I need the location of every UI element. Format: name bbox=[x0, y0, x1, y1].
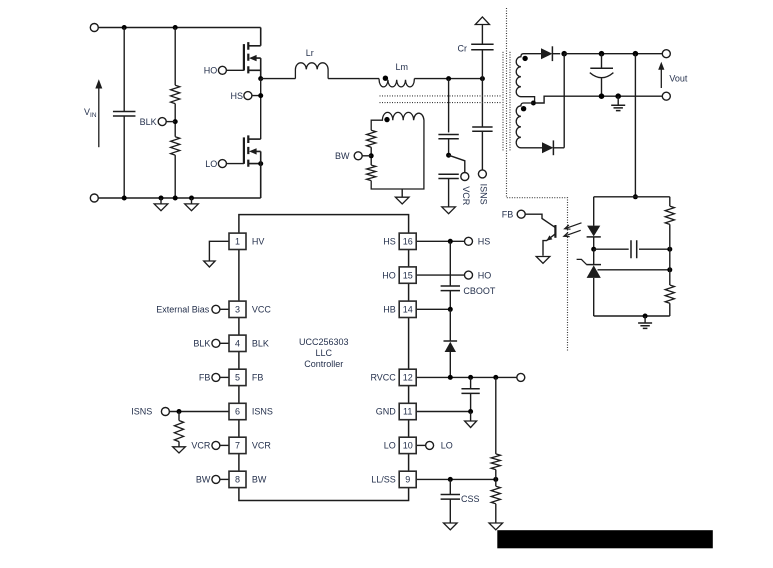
terminal VCR pin bbox=[212, 441, 220, 449]
wire BW tap bbox=[362, 155, 371, 157]
terminal BLK bbox=[158, 118, 166, 126]
junction Q2 source bbox=[258, 161, 263, 166]
ground ISNS bbox=[173, 447, 186, 453]
wire center tap to return bbox=[535, 96, 663, 103]
wire LLSS divider bottom bbox=[495, 504, 497, 523]
svg-text:BW: BW bbox=[196, 475, 211, 485]
ground BW bbox=[395, 197, 409, 204]
pin 7 VCR bbox=[229, 437, 246, 453]
wire ISNS resistor lead bbox=[178, 412, 180, 421]
wire CSS bottom lead bbox=[449, 499, 451, 523]
ground CSS bbox=[444, 523, 458, 530]
wire opto LED lead bbox=[593, 197, 595, 226]
wire top input rail bbox=[98, 27, 260, 29]
terminal ISNS pin bbox=[161, 408, 169, 416]
svg-text:CBOOT: CBOOT bbox=[463, 286, 496, 296]
node BLK junction bbox=[173, 119, 178, 124]
capacitor input top lead bbox=[123, 28, 125, 112]
capacitor VCR lower bbox=[438, 174, 458, 178]
transistor optocoupler photo bbox=[554, 225, 556, 238]
capacitor compensation bbox=[631, 240, 637, 258]
polarity dot secondary lower bbox=[521, 106, 526, 111]
svg-text:4: 4 bbox=[235, 339, 240, 349]
svg-text:8: 8 bbox=[235, 475, 240, 485]
wire pin12 RVCC bbox=[416, 376, 517, 378]
wire feedback divider bottom bbox=[669, 303, 671, 316]
inductor Lr bbox=[295, 63, 328, 79]
svg-text:UCC256303: UCC256303 bbox=[299, 337, 349, 347]
transformer core right bbox=[509, 52, 511, 151]
ground input 2 bbox=[191, 198, 193, 204]
svg-text:External Bias: External Bias bbox=[156, 305, 210, 315]
svg-text:VCR: VCR bbox=[461, 186, 471, 206]
svg-text:BW: BW bbox=[252, 475, 267, 485]
wire output top rail bbox=[564, 53, 662, 55]
wire pin7 VCR bbox=[220, 444, 229, 446]
diode D2 rectifier bbox=[541, 147, 543, 149]
ground input 1 bbox=[160, 198, 162, 204]
wire pin10 LO bbox=[416, 444, 425, 446]
resistor divider lower bbox=[171, 137, 180, 155]
arrow to bus bbox=[475, 17, 489, 25]
ground LLSS divider bbox=[489, 523, 503, 530]
svg-text:1: 1 bbox=[235, 237, 240, 247]
svg-text:BLK: BLK bbox=[193, 339, 210, 349]
wire BLK tap bbox=[166, 121, 175, 123]
capacitor Cr bbox=[471, 44, 493, 50]
terminal BW pin bbox=[212, 475, 220, 483]
svg-text:ISNS: ISNS bbox=[131, 407, 152, 417]
diode D1 rectifier bbox=[541, 48, 552, 59]
polarity dot BW winding bbox=[384, 117, 389, 122]
terminal BLK pin bbox=[212, 339, 220, 347]
pin 4 BLK bbox=[229, 335, 246, 351]
resistor BW lower bbox=[367, 165, 376, 180]
wire pin8 BW bbox=[220, 478, 229, 480]
svg-text:7: 7 bbox=[235, 441, 240, 451]
terminal HO bbox=[218, 66, 226, 74]
terminal FB pin bbox=[212, 373, 220, 381]
wire feedback divider top lead bbox=[669, 197, 671, 206]
wire Lm to Cr node bbox=[414, 78, 482, 80]
svg-text:ISNS: ISNS bbox=[478, 184, 488, 205]
resistor divider upper bbox=[171, 85, 180, 103]
junction feedback ground bbox=[643, 314, 648, 319]
svg-text:HS: HS bbox=[383, 237, 396, 247]
node HS junction bbox=[258, 76, 263, 81]
svg-text:FB: FB bbox=[252, 373, 264, 383]
svg-text:BLK: BLK bbox=[140, 117, 157, 127]
Vout arrow bbox=[660, 69, 662, 88]
svg-text:BW: BW bbox=[335, 151, 350, 161]
junction HS bootstrap bbox=[448, 239, 453, 244]
junction Cr branch bbox=[480, 76, 485, 81]
svg-text:VCC: VCC bbox=[252, 305, 272, 315]
winding secondary lower bbox=[516, 103, 542, 148]
svg-text:RVCC: RVCC bbox=[370, 373, 396, 383]
junction center tap bbox=[531, 101, 536, 106]
junction divider ref bbox=[667, 267, 672, 272]
wire TL431 ref to divider bbox=[598, 269, 670, 271]
junction output ground bbox=[615, 93, 621, 99]
svg-text:9: 9 bbox=[405, 475, 410, 485]
wire ISNS branch bottom bbox=[481, 131, 483, 170]
terminal HO out bbox=[465, 271, 473, 279]
junction input cap top bbox=[122, 25, 127, 30]
wire pin14 HB bbox=[416, 308, 450, 310]
isolation barrier horizontal upper bbox=[380, 95, 503, 97]
wire LO gate bbox=[226, 163, 244, 165]
wire bootstrap diode bottom bbox=[449, 352, 451, 377]
IC U1 UCC256303 outline bbox=[239, 215, 409, 501]
wire pin6 ISNS bbox=[169, 411, 229, 413]
svg-text:HS: HS bbox=[230, 91, 243, 101]
wire HS to Lr bbox=[261, 78, 296, 80]
transistor Q1 high-side MOSFET bbox=[247, 42, 249, 73]
pin 1 HV bbox=[229, 233, 246, 249]
svg-text:Lm: Lm bbox=[395, 62, 408, 72]
capacitor RVCC bbox=[461, 389, 479, 394]
junction feedback branch top bbox=[633, 51, 639, 57]
junction CSS node bbox=[448, 477, 453, 482]
wire VCR tap diagonal bbox=[449, 155, 465, 172]
junction RVCC cap bbox=[468, 375, 473, 380]
svg-text:16: 16 bbox=[403, 237, 413, 247]
wire GND stub bbox=[470, 412, 472, 422]
pin 9 LLSS bbox=[399, 471, 416, 487]
wire Cr top lead bbox=[481, 25, 483, 45]
wire pin11 GND bbox=[416, 411, 470, 413]
svg-text:FB: FB bbox=[199, 373, 211, 383]
terminal ISNS top bbox=[478, 170, 486, 178]
wire HS tap bbox=[252, 79, 261, 140]
junction feedback rail bbox=[633, 194, 638, 199]
junction HS tap bbox=[258, 93, 263, 98]
junction comp cap right bbox=[667, 247, 672, 252]
winding secondary upper bbox=[516, 54, 541, 103]
wire VCR branch top bbox=[448, 79, 450, 133]
resistor feedback upper bbox=[665, 206, 674, 224]
wire BW ground stub bbox=[401, 189, 403, 197]
wire compensation cap right bbox=[639, 248, 670, 250]
ground GND pin bbox=[465, 421, 477, 428]
svg-text:GND: GND bbox=[376, 407, 397, 417]
junction VCR branch bbox=[446, 76, 451, 81]
wire Q2 drain bbox=[248, 138, 260, 140]
terminal HS out bbox=[465, 237, 473, 245]
svg-text:HO: HO bbox=[382, 270, 396, 280]
wire Q2 source to rail bbox=[260, 151, 262, 198]
junction LED cathode bbox=[591, 247, 596, 252]
transistor Q2 low-side MOSFET bbox=[247, 135, 249, 166]
wire feedback divider mid bbox=[669, 224, 671, 285]
transformer core left bbox=[502, 52, 504, 151]
ground HV pin bbox=[204, 261, 215, 267]
pin 5 FB bbox=[229, 369, 246, 385]
svg-text:Cr: Cr bbox=[458, 43, 468, 53]
junction ground 2 bbox=[189, 196, 194, 201]
wire bottom input rail bbox=[98, 197, 260, 199]
wire divider bottom lead bbox=[174, 155, 176, 198]
winding BW aux bbox=[371, 112, 424, 189]
terminal RVCC bbox=[517, 373, 525, 381]
capacitor input bbox=[113, 111, 136, 116]
resistor LLSS lower bbox=[491, 486, 500, 504]
svg-text:5: 5 bbox=[235, 373, 240, 383]
svg-text:BLK: BLK bbox=[252, 339, 269, 349]
VIN arrow bbox=[98, 88, 100, 148]
wire feedback top rail bbox=[594, 196, 670, 198]
wire ISNS branch top bbox=[481, 79, 483, 127]
wire pin9 LLSS bbox=[416, 478, 496, 480]
wire pin15 HO bbox=[416, 274, 464, 276]
junction divider bottom bbox=[173, 196, 178, 201]
terminal FB opto bbox=[517, 210, 525, 218]
wire CSS top lead bbox=[449, 479, 451, 494]
junction LLSS divider bbox=[493, 477, 498, 482]
junction ISNS resistor bbox=[177, 409, 182, 414]
wire VCR branch mid bbox=[448, 139, 450, 156]
svg-text:HB: HB bbox=[383, 305, 396, 315]
pin 6 ISNS bbox=[229, 403, 246, 419]
junction BW tap bbox=[369, 153, 374, 158]
capacitor CBOOT bbox=[441, 286, 460, 291]
svg-text:LL/SS: LL/SS bbox=[371, 475, 396, 485]
wire feedback bottom rail bbox=[594, 315, 670, 317]
svg-text:VCR: VCR bbox=[191, 441, 211, 451]
pin 14 HB bbox=[399, 301, 416, 317]
terminal Vout- bbox=[662, 92, 670, 100]
ground VCR branch bbox=[442, 207, 456, 214]
light arrow 1 bbox=[565, 223, 582, 229]
svg-text:15: 15 bbox=[403, 270, 413, 280]
junction RVCC divider bbox=[493, 375, 498, 380]
terminal VIN- bbox=[90, 194, 98, 202]
terminal External Bias bbox=[212, 305, 220, 313]
svg-text:LO: LO bbox=[441, 441, 453, 451]
wire pin4 BLK bbox=[220, 342, 229, 344]
capacitor ISNS branch bbox=[472, 127, 492, 131]
junction divider top bbox=[173, 25, 178, 30]
isolation barrier horizontal lower bbox=[380, 102, 503, 104]
inductor Lm bbox=[379, 79, 414, 87]
junction input cap bottom bbox=[122, 196, 127, 201]
wire Cr bottom lead bbox=[481, 50, 483, 79]
junction ground 1 bbox=[159, 196, 164, 201]
diode optocoupler LED bbox=[587, 226, 600, 237]
wire VCR branch bottom bbox=[448, 179, 450, 207]
wire Lr to Lm bbox=[328, 78, 379, 80]
svg-text:3: 3 bbox=[235, 305, 240, 315]
svg-text:FB: FB bbox=[502, 209, 514, 219]
pin 16 HS bbox=[399, 233, 416, 249]
svg-text:HO: HO bbox=[204, 66, 218, 76]
junction RVCC diode bbox=[448, 375, 453, 380]
terminal LO out bbox=[426, 441, 434, 449]
svg-text:HS: HS bbox=[478, 237, 491, 247]
junction output cap top bbox=[599, 51, 605, 57]
junction GND node bbox=[468, 409, 473, 414]
svg-text:ISNS: ISNS bbox=[252, 407, 273, 417]
polarity dot Lm bbox=[383, 76, 388, 81]
pin 12 RVCC bbox=[399, 369, 416, 385]
svg-text:LLC: LLC bbox=[316, 348, 333, 358]
wire pin3 VCC bbox=[220, 308, 229, 310]
wire FB to opto collector bbox=[525, 214, 555, 227]
wire ISNS resistor bottom bbox=[178, 442, 180, 447]
junction HB node bbox=[448, 307, 453, 312]
wire HO gate bbox=[226, 69, 244, 71]
junction output cap bottom bbox=[599, 93, 605, 99]
terminal LO gate bbox=[218, 160, 226, 168]
wire RVCC divider top lead bbox=[495, 377, 497, 454]
wire BW left mid bbox=[370, 147, 372, 165]
svg-text:Lr: Lr bbox=[306, 48, 314, 58]
terminal HS bbox=[244, 92, 252, 100]
svg-text:CSS: CSS bbox=[461, 494, 480, 504]
terminal VIN+ bbox=[90, 24, 98, 32]
svg-text:VCR: VCR bbox=[252, 441, 272, 451]
wire Vout to feedback bbox=[634, 54, 636, 197]
wire pin1 HV ground bbox=[209, 241, 229, 261]
wire divider middle bbox=[174, 104, 176, 137]
diode bootstrap bbox=[444, 340, 458, 342]
wire CBOOT top lead bbox=[449, 241, 451, 286]
svg-text:14: 14 bbox=[403, 305, 413, 315]
svg-text:10: 10 bbox=[403, 441, 413, 451]
resistor ISNS bbox=[174, 421, 183, 442]
capacitor CSS bbox=[441, 494, 460, 499]
svg-text:HV: HV bbox=[252, 237, 265, 247]
svg-text:LO: LO bbox=[384, 441, 396, 451]
wire CBOOT bottom lead bbox=[449, 291, 451, 310]
terminal Vout+ bbox=[662, 50, 670, 58]
svg-text:11: 11 bbox=[403, 407, 412, 417]
shunt regulator TL431 bbox=[593, 249, 595, 264]
terminal VCR bbox=[461, 173, 469, 181]
svg-text:LO: LO bbox=[205, 159, 217, 169]
wire divider top lead bbox=[174, 28, 176, 86]
wire RVCC cap bottom lead bbox=[470, 393, 472, 411]
terminal BW aux bbox=[354, 152, 362, 160]
ground optocoupler bbox=[536, 257, 550, 264]
pin 10 LO bbox=[399, 437, 416, 453]
wire compensation cap left bbox=[594, 248, 629, 250]
isolation barrier vertical primary bbox=[507, 8, 568, 351]
resistor BW upper bbox=[367, 130, 376, 147]
capacitor VCR upper bbox=[438, 135, 458, 139]
junction rectifier output bbox=[561, 51, 567, 57]
pin 3 VCC bbox=[229, 301, 246, 317]
svg-text:Vout: Vout bbox=[669, 73, 688, 83]
wire pin16 HS bbox=[416, 240, 464, 242]
polarity dot secondary upper bbox=[522, 56, 527, 61]
capacitor input bottom lead bbox=[123, 116, 125, 198]
pin 15 HO bbox=[399, 267, 416, 283]
svg-text:6: 6 bbox=[235, 407, 240, 417]
resistor LLSS upper bbox=[491, 454, 500, 470]
pin 11 GND bbox=[399, 403, 416, 419]
light arrow 2 bbox=[564, 230, 581, 236]
black bar bbox=[497, 530, 713, 548]
wire bootstrap diode top bbox=[449, 309, 451, 341]
svg-text:Controller: Controller bbox=[304, 359, 343, 369]
capacitor output polarized bbox=[601, 54, 603, 69]
wire LLSS divider mid bbox=[495, 470, 497, 487]
ground output bbox=[617, 96, 619, 105]
wire RVCC cap top lead bbox=[470, 377, 472, 388]
junction VCR tap bbox=[446, 153, 451, 158]
svg-text:HO: HO bbox=[478, 270, 492, 280]
svg-text:12: 12 bbox=[403, 373, 413, 383]
pin 8 BW bbox=[229, 471, 246, 487]
wire Q1 drain bbox=[248, 28, 260, 46]
resistor feedback lower bbox=[665, 285, 674, 303]
wire Q1 source to HS node bbox=[260, 58, 262, 79]
wire pin5 FB bbox=[220, 376, 229, 378]
ground feedback bbox=[644, 316, 646, 323]
